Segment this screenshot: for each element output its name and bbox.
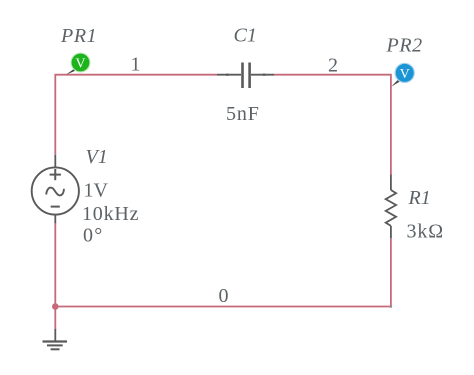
svg-text:R1: R1 xyxy=(408,187,431,209)
voltage source V1 xyxy=(32,155,79,223)
svg-text:1: 1 xyxy=(131,54,141,76)
sine symbol xyxy=(46,188,64,196)
junction node at bottom-left xyxy=(52,303,59,310)
ground xyxy=(43,329,68,349)
svg-text:V1: V1 xyxy=(86,146,108,168)
svg-text:1V: 1V xyxy=(84,180,109,202)
minus sign xyxy=(51,206,60,208)
wire: net 1 from source to capacitor (left vertical + top-left horizontal) xyxy=(55,75,217,155)
svg-text:V: V xyxy=(400,66,410,81)
svg-text:0: 0 xyxy=(219,285,229,307)
probe PR2 (blue voltage probe) xyxy=(391,63,415,87)
wire: net 2 from capacitor to resistor (top-right horizontal + right vertical) xyxy=(274,75,391,175)
svg-text:0°: 0° xyxy=(83,224,103,246)
svg-text:2: 2 xyxy=(328,55,338,77)
probe PR1 (green voltage probe) xyxy=(66,53,91,75)
svg-text:10kHz: 10kHz xyxy=(82,203,139,225)
capacitor C1 xyxy=(217,63,274,89)
svg-text:3kΩ: 3kΩ xyxy=(407,221,445,243)
corner pin mark bottom-right xyxy=(390,306,392,308)
resistor R1 xyxy=(386,175,396,239)
wire: net 0 bottom U (right vertical below resistor + bottom horizontal + left vertical below source) xyxy=(55,223,391,307)
wire: ground stub red xyxy=(54,307,56,331)
svg-text:PR1: PR1 xyxy=(60,25,97,47)
svg-text:C1: C1 xyxy=(234,25,257,47)
plus sign xyxy=(50,174,61,176)
svg-text:PR2: PR2 xyxy=(386,35,423,57)
svg-text:5nF: 5nF xyxy=(226,103,260,125)
svg-text:V: V xyxy=(76,56,86,71)
